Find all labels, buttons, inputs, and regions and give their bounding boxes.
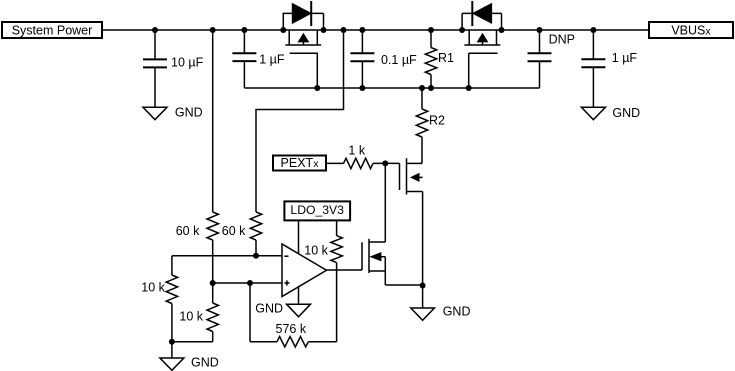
svg-text:10 µF: 10 µF <box>171 55 204 69</box>
svg-text:GND: GND <box>191 356 219 370</box>
svg-text:GND: GND <box>175 106 203 120</box>
svg-text:10 k: 10 k <box>304 244 328 258</box>
svg-text:10 k: 10 k <box>141 281 165 295</box>
svg-text:10 k: 10 k <box>179 310 203 324</box>
svg-text:1 µF: 1 µF <box>259 53 285 67</box>
svg-text:GND: GND <box>255 302 283 316</box>
svg-text:R2: R2 <box>429 114 445 128</box>
svg-text:VBUSx: VBUSx <box>671 23 711 37</box>
svg-text:1 k: 1 k <box>348 144 365 158</box>
svg-text:1 µF: 1 µF <box>612 51 638 65</box>
svg-text:60 k: 60 k <box>222 224 246 238</box>
svg-text:PEXTx: PEXTx <box>281 156 320 170</box>
svg-text:60 k: 60 k <box>176 224 200 238</box>
svg-text:0.1 µF: 0.1 µF <box>381 53 417 67</box>
svg-text:GND: GND <box>443 305 471 319</box>
svg-text:GND: GND <box>612 106 640 120</box>
svg-text:LDO_3V3: LDO_3V3 <box>290 203 344 217</box>
svg-text:R1: R1 <box>438 51 454 65</box>
svg-text:System Power: System Power <box>12 23 93 37</box>
svg-text:DNP: DNP <box>549 33 575 47</box>
svg-text:576 k: 576 k <box>276 322 307 336</box>
